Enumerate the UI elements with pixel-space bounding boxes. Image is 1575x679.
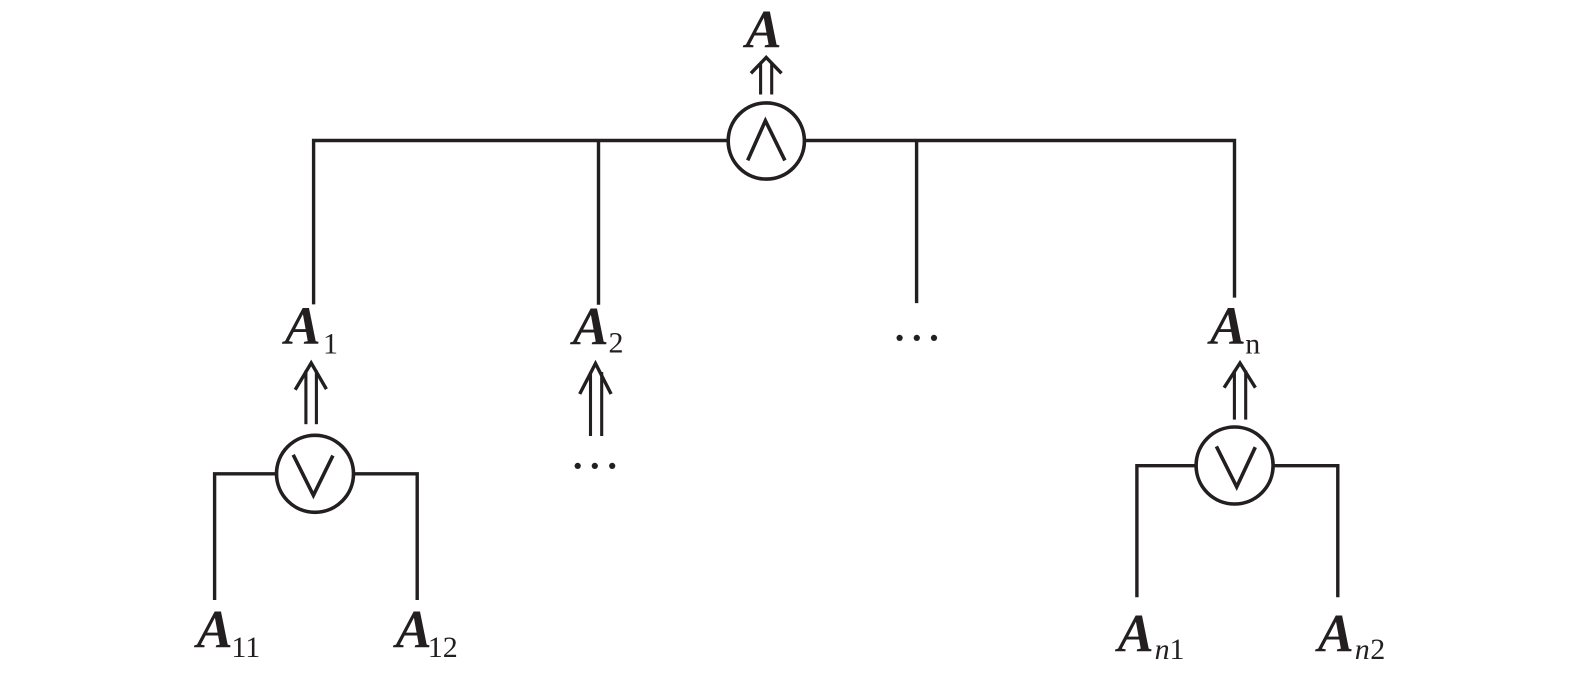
svg-text:12: 12	[428, 631, 458, 664]
svg-text:A: A	[1315, 604, 1354, 664]
svg-text:1: 1	[1170, 633, 1185, 666]
svg-text:A: A	[743, 0, 782, 60]
svg-text:A: A	[282, 296, 321, 356]
svg-text:1: 1	[323, 328, 338, 361]
svg-text:A: A	[1115, 604, 1154, 664]
svg-text:A: A	[1207, 296, 1246, 356]
svg-text:A: A	[570, 296, 609, 356]
svg-text:n: n	[1155, 633, 1170, 666]
svg-text:n: n	[1355, 633, 1370, 666]
svg-text:2: 2	[1370, 633, 1385, 666]
svg-text:A: A	[393, 600, 432, 660]
svg-text:A: A	[194, 600, 233, 660]
svg-text:2: 2	[609, 327, 624, 360]
svg-text:n: n	[1245, 328, 1260, 361]
svg-text:11: 11	[231, 631, 260, 664]
